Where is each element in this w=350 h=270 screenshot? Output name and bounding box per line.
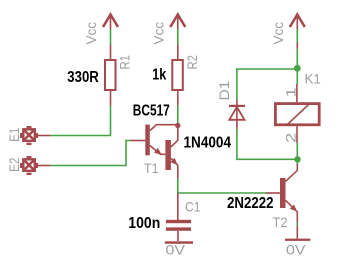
resistor R1 — [105, 60, 116, 90]
T1 Q1 emitter with arrow — [150, 146, 166, 155]
diode D1 cathode bar — [229, 105, 245, 107]
svg-text:0V: 0V — [166, 242, 186, 258]
svg-text:K1: K1 — [305, 71, 322, 87]
svg-text:T1: T1 — [144, 160, 159, 176]
T1 Q2 emitter with arrow — [171, 158, 178, 178]
T2 base bar — [280, 178, 286, 208]
relay coil K1 — [275, 104, 319, 125]
svg-text:1k: 1k — [152, 66, 166, 83]
svg-text:Vcc: Vcc — [83, 22, 99, 45]
wire D1 top — [237, 69, 297, 100]
wire K1 to junction 2 — [296, 143, 298, 159]
pin E2 — [36, 165, 50, 167]
pin R2 bottom — [177, 91, 179, 106]
resistor R2 — [172, 60, 183, 90]
supply Vcc 2 arrow — [170, 14, 185, 29]
pin R1 bottom — [110, 91, 112, 106]
supply 0V bar under C1 — [165, 241, 193, 244]
svg-text:Vcc: Vcc — [150, 22, 166, 45]
svg-text:R1: R1 — [117, 55, 133, 70]
junction dot T1 collectors — [175, 123, 180, 128]
pin stub on Vcc3 run — [296, 43, 298, 49]
pin T1 base — [131, 140, 146, 142]
T1 Q1 collector — [150, 125, 176, 131]
svg-text:T2: T2 — [273, 214, 288, 230]
svg-text:100n: 100n — [128, 215, 160, 232]
capacitor C1 plates — [166, 220, 191, 223]
T1 base bar 2 — [165, 140, 171, 170]
diode D1 triangle — [229, 107, 244, 120]
pin R2 top — [177, 45, 179, 60]
pin E1 — [36, 135, 50, 137]
wire Vcc3 down — [296, 29, 298, 43]
pin C1 bottom — [177, 231, 179, 241]
svg-text:Vcc: Vcc — [270, 22, 286, 45]
wire R2 to T1 collector — [177, 106, 179, 124]
wire junction2 to T2 collector — [296, 159, 298, 164]
svg-text:330R: 330R — [67, 69, 99, 86]
supply 0V bar under T2 — [285, 239, 310, 241]
svg-text:BC517: BC517 — [133, 103, 170, 120]
svg-text:E1: E1 — [6, 127, 22, 142]
wire T2 emitter dash — [296, 223, 298, 226]
svg-text:2N2222: 2N2222 — [227, 195, 274, 212]
supply Vcc 3 arrow — [290, 14, 305, 29]
wire D1 bottom — [237, 129, 295, 159]
T2 emitter with arrow — [286, 200, 298, 222]
transistor T2 collector — [286, 164, 298, 181]
svg-text:C1: C1 — [185, 199, 201, 215]
wire to K1 junction — [296, 49, 298, 85]
svg-text:1N4004: 1N4004 — [184, 135, 232, 152]
svg-text:1: 1 — [283, 87, 299, 97]
pin T2 emitter to gnd — [296, 226, 298, 239]
svg-text:2: 2 — [283, 132, 299, 142]
junction dot Vcc/K1/D1 — [294, 65, 301, 72]
wire R1 to E1 — [50, 106, 111, 136]
supply Vcc 1 arrow — [103, 14, 118, 29]
svg-text:E2: E2 — [6, 157, 22, 172]
pin T2 base — [266, 192, 280, 194]
wire T1 emitter to C1/T2 — [178, 178, 266, 193]
connector pad E1 — [21, 127, 37, 144]
svg-text:D1: D1 — [216, 80, 232, 100]
svg-text:R2: R2 — [184, 55, 200, 70]
wire Vcc1 to R1 — [110, 29, 112, 45]
pin K1 2 — [296, 126, 298, 143]
wire Vcc2 to R2 — [177, 29, 179, 45]
pin C1 top — [177, 193, 179, 220]
pin R1 top — [110, 45, 112, 60]
connector pad E2 — [21, 157, 37, 174]
svg-text:0V: 0V — [286, 242, 306, 258]
diode D1 lead — [236, 100, 238, 129]
pin K1 1 — [296, 84, 298, 102]
relay diagonal — [287, 103, 309, 124]
transistor T1 darlington: base bar 1 — [145, 125, 150, 156]
wire E2 to T1 base — [50, 141, 131, 166]
junction dot K1/D1/T2 — [294, 156, 300, 162]
T1 Q2 collector — [171, 128, 178, 147]
